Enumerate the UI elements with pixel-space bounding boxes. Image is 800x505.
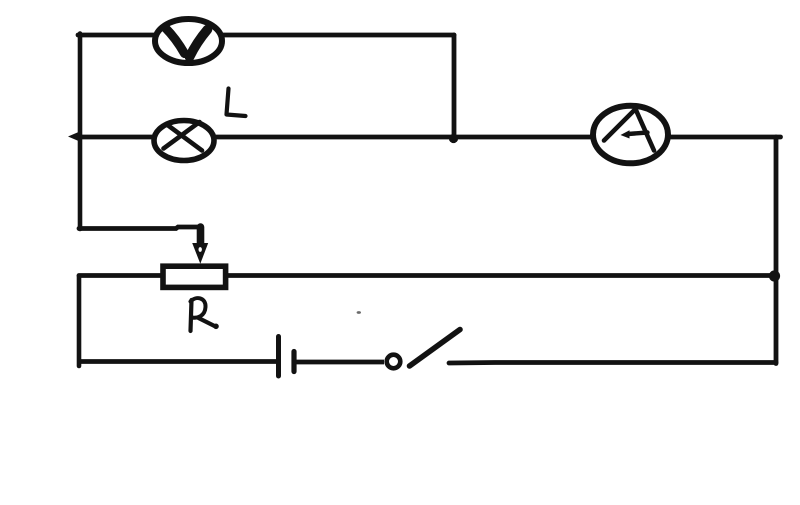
voltmeter: hand-drawn V mark	[165, 28, 208, 58]
lamp L: ellipse body	[154, 121, 214, 161]
voltmeter: ellipse body	[155, 19, 222, 63]
wire: slider feed horizontal (y=227.5, x79-201)	[79, 227, 201, 229]
rheostat slider arrow: solid down arrowhead onto R	[192, 243, 208, 264]
wire: bottom wire between battery and switch (y=362)	[294, 360, 384, 365]
wire: lamp/ammeter row horizontal (y=136.5)	[79, 135, 781, 140]
wire: bottom wire right segment (y=363)	[449, 360, 776, 365]
wire: top horizontal voltmeter branch (y=35)	[78, 33, 454, 38]
wire: rheostat row horizontal (y=275.5)	[79, 273, 776, 278]
wire: right vertical (x=776, y137-363)	[774, 137, 779, 364]
ammeter A: hand-drawn A with arrow crossbar	[604, 109, 654, 151]
rheostat R: rectangle body	[163, 266, 226, 287]
wire: right drop of voltmeter branch (x=454)	[452, 35, 457, 137]
node: junction dot on right vertical at rheostat row (774,276)	[769, 270, 780, 281]
battery cell: short plate (negative)	[291, 352, 296, 372]
lamp L: X cross inside	[164, 122, 203, 151]
wire: slider vertical stem (x=200)	[197, 227, 205, 245]
switch S: pivot circle (open)	[387, 355, 401, 369]
current arrow: small left-pointing arrowhead at left junction (79,136.5)	[68, 131, 82, 142]
battery cell: long plate (positive)	[276, 337, 281, 377]
label L	[227, 89, 246, 117]
node: junction dot where voltmeter branch meets lamp row (454,138)	[449, 134, 458, 143]
wire: bottom-left vertical (x=79, y276-366)	[77, 276, 82, 366]
switch S: open blade	[410, 330, 461, 367]
wire: bottom wire left segment to battery (y=361.5)	[77, 359, 277, 364]
ammeter A: ellipse body	[593, 106, 668, 164]
wire: top-left vertical (x=80, y33-229)	[78, 34, 83, 230]
stray speck near switch	[357, 311, 361, 314]
label R	[191, 298, 219, 331]
